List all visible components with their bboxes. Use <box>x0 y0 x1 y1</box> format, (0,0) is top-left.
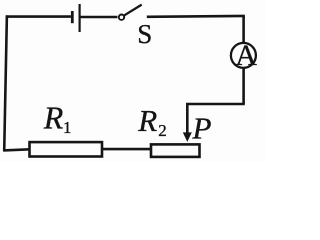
wire: left vertical <box>4 15 7 151</box>
wire: bottom left (corner to R1) <box>3 149 30 150</box>
wire: battery to switch <box>81 16 118 19</box>
rheostat R2 box <box>151 144 200 157</box>
battery cell: short negative plate <box>71 11 74 23</box>
wire: right vertical (below ammeter) <box>242 68 245 104</box>
svg-text:R: R <box>43 100 64 136</box>
wiper arrowhead onto R2 <box>183 132 192 142</box>
resistor R1 box <box>30 142 103 156</box>
switch S: open blade arm <box>124 5 141 16</box>
wire: top left horizontal (left corner to battery) <box>6 15 71 18</box>
svg-text:2: 2 <box>158 121 167 140</box>
wire: switch to top right corner <box>147 15 245 18</box>
wire: mid horizontal to wiper <box>187 103 245 106</box>
svg-text:A: A <box>235 39 257 72</box>
svg-text:1: 1 <box>63 118 72 137</box>
ammeter A: circle body <box>231 43 256 68</box>
switch S: pivot circle <box>119 15 124 20</box>
wire: right vertical (top, to ammeter) <box>242 15 245 43</box>
wire: wiper vertical drop <box>186 103 189 134</box>
svg-text:R: R <box>137 103 157 138</box>
battery cell: long positive plate <box>78 4 80 32</box>
svg-text:P: P <box>192 110 212 145</box>
svg-text:S: S <box>137 19 152 49</box>
wire: bottom between R1 and R2 <box>102 148 153 151</box>
